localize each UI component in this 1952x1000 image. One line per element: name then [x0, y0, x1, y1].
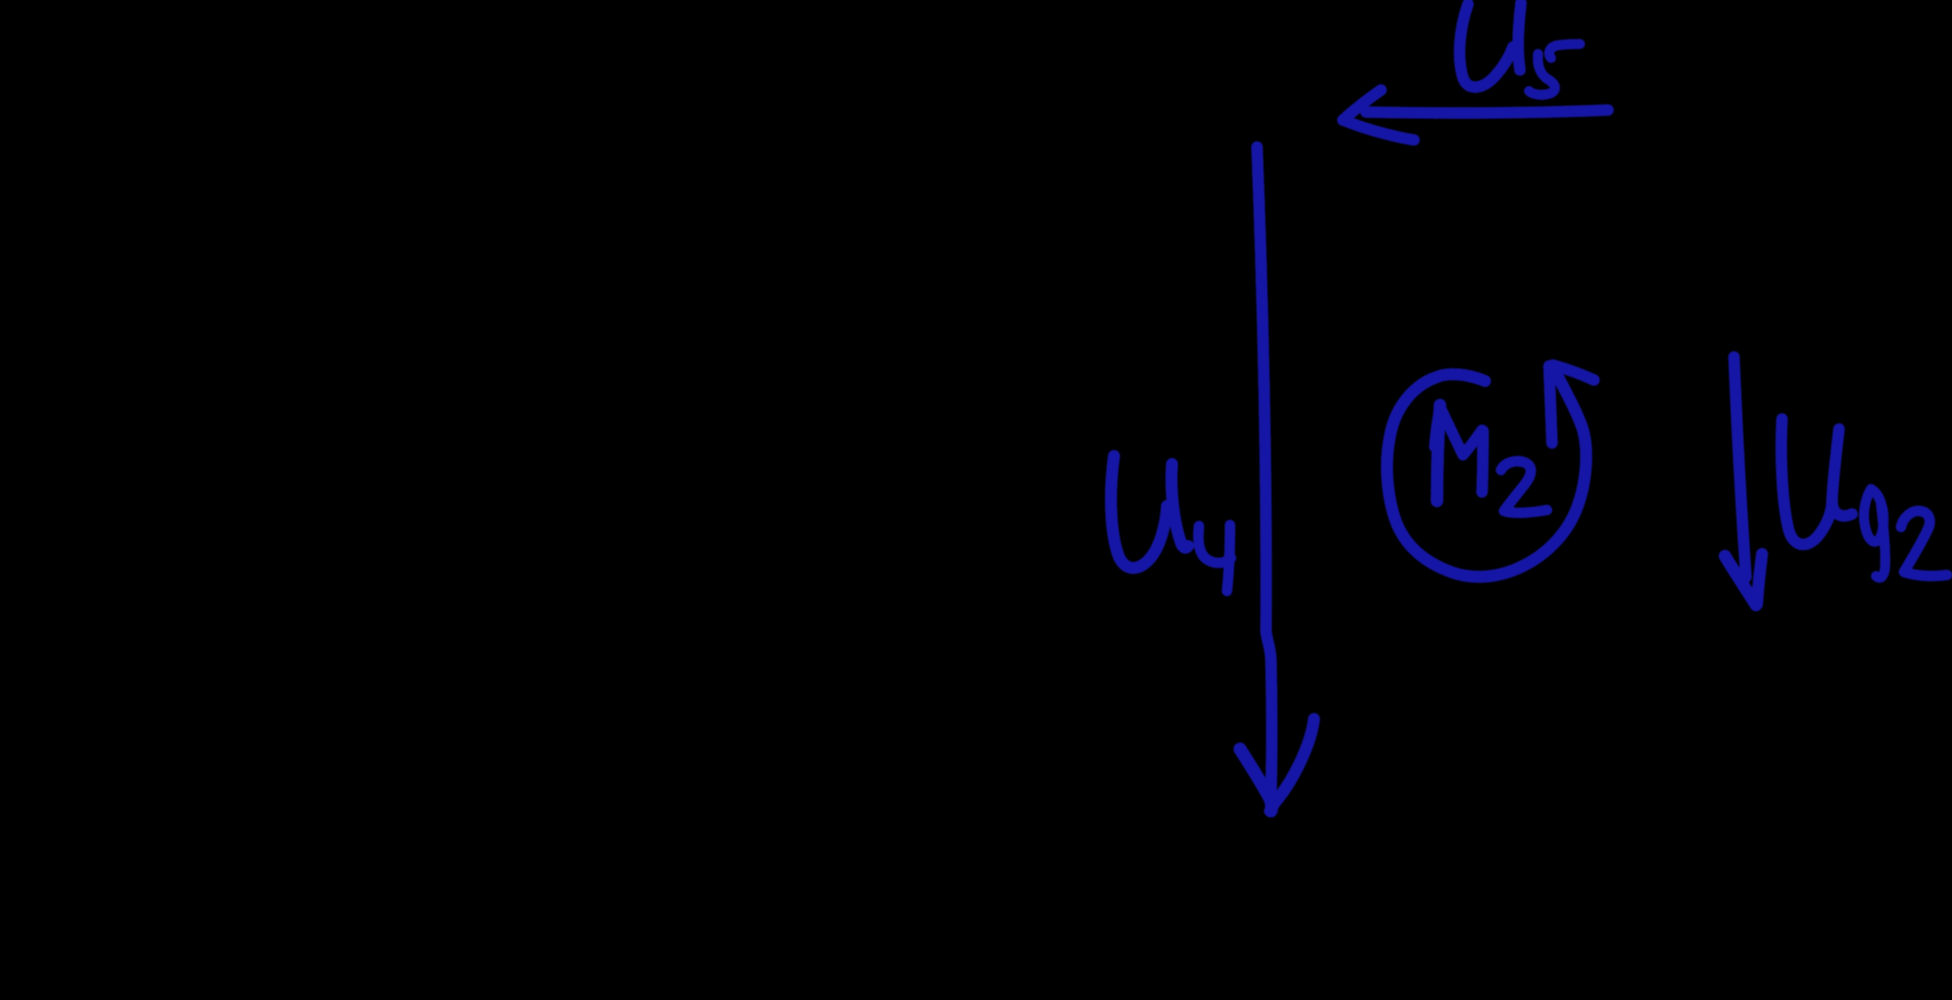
node U4 label (subscript 4) [1198, 525, 1231, 591]
voltage arrow U4 (long vertical shaft) [1257, 147, 1272, 796]
voltage arrow U5 (arrowhead) [1343, 90, 1414, 140]
node Uq2 label (subscript 2) [1901, 511, 1947, 576]
mesh label M2 (subscript 2) [1501, 461, 1547, 513]
node Uq2 label (subscript q) [1864, 489, 1885, 578]
node Uq2 label (letter U) [1781, 419, 1852, 545]
mesh label M2 (letter M) [1434, 405, 1483, 501]
voltage arrow U4 (arrowhead) [1240, 719, 1314, 811]
voltage arrow U5 (shaft, pointing left) [1366, 110, 1608, 113]
mesh arrow M2 (arrowhead) [1549, 365, 1594, 443]
node U5 label (letter U) [1460, 3, 1521, 87]
voltage arrow Uq2 (vertical shaft) [1734, 357, 1746, 577]
voltage arrow Uq2 (arrowhead) [1725, 554, 1762, 605]
mesh arrow M2 (circular arc with stem) [1387, 367, 1586, 577]
node U4 label (letter U) [1111, 456, 1188, 568]
node U5 label (subscript 5) [1529, 44, 1580, 95]
